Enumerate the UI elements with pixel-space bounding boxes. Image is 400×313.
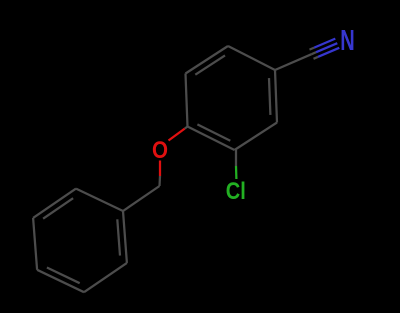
phenyl ring B (benzyl group) bbox=[33, 189, 127, 293]
benzene ring A of 4-(benzyloxy)-3-chlorobenzonitrile bbox=[186, 46, 278, 150]
nitrile C#N: single + triple bond bbox=[275, 39, 339, 70]
svg-text:N: N bbox=[340, 25, 355, 57]
bond O-C4 (aryl ether) bbox=[169, 127, 188, 141]
bond O-CH2 bbox=[158, 161, 161, 187]
bond C3-Cl bbox=[235, 150, 238, 179]
svg-text:Cl: Cl bbox=[226, 178, 246, 205]
svg-text:O: O bbox=[152, 137, 168, 164]
bond CH2-ipso of phenyl bbox=[123, 186, 160, 211]
